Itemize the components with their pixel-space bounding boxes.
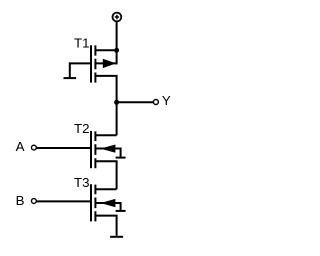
svg-text:T3: T3	[74, 175, 90, 190]
wire supply down to T1 source junction	[116, 22, 118, 50]
junction dot at T1 source node	[114, 48, 119, 53]
transistor T2 channel segments	[94, 131, 96, 168]
transistor T1 bulk line	[95, 62, 116, 64]
transistor T1 (PMOS) gate bar	[90, 45, 92, 82]
transistor T2 top terminal (drain)	[95, 134, 116, 136]
wire output node to Y terminal	[117, 101, 154, 103]
transistor T3 bulk line and stub	[95, 203, 120, 210]
transistor T2 bulk arrow (points left, NMOS)	[100, 145, 115, 153]
wire T1 gate to ground	[70, 63, 90, 77]
wire input A to T2 gate	[36, 147, 90, 149]
transistor T1 top terminal (source)	[95, 49, 116, 51]
transistor T3 top terminal (drain)	[95, 188, 116, 190]
transistor T2 (NMOS) gate bar	[90, 131, 92, 168]
svg-text:T1: T1	[74, 36, 90, 51]
transistor T3 (NMOS) gate bar	[90, 184, 92, 221]
supply terminal (+)	[113, 13, 122, 22]
transistor T2 bottom terminal (source) with wire down to T3 drain	[95, 161, 116, 189]
output terminal circle Y	[153, 100, 158, 105]
junction dot at output node	[114, 100, 119, 105]
transistor T3 bulk arrow (points left, NMOS)	[100, 199, 115, 207]
svg-text:A: A	[16, 139, 25, 154]
wire rail from junction down to T1 bulk tie	[116, 50, 118, 64]
transistor T3 bottom terminal (source) with wire down to ground	[95, 216, 116, 236]
svg-text:T2: T2	[74, 121, 90, 136]
ground symbol at bottom	[110, 236, 123, 238]
wire output node down to T2 drain	[116, 102, 118, 135]
transistor T3 channel segments	[94, 185, 96, 222]
bulk ground tick T3	[116, 210, 126, 212]
bulk ground tick T2	[116, 157, 126, 159]
transistor T1 bulk arrow (points right, PMOS)	[103, 59, 116, 68]
wire input B to T3 gate	[36, 200, 90, 202]
input terminal circle A	[32, 145, 37, 150]
input terminal circle B	[32, 199, 37, 204]
svg-text:Y: Y	[162, 93, 171, 108]
transistor T1 bottom terminal (drain) with wire down to output node	[95, 76, 116, 102]
transistor T2 bulk line and stub	[95, 149, 120, 157]
ground symbol at T1 gate	[64, 77, 77, 79]
svg-text:B: B	[16, 193, 25, 208]
transistor T1 channel segments	[94, 45, 96, 82]
